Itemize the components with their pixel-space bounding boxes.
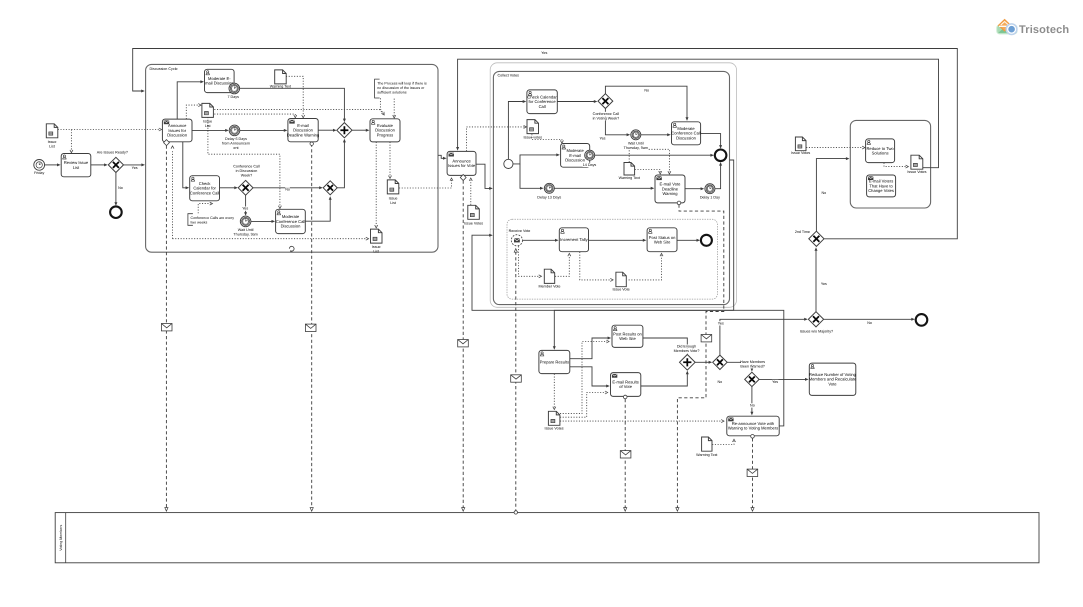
- gateway merge conference call: [323, 181, 337, 195]
- task Moderate E-mail Discussion CV: [561, 144, 590, 168]
- gateway Conference Call in Voting Week?: [598, 94, 613, 109]
- association annotation Conference-Calls stub: [198, 204, 210, 214]
- svg-text:Have Members: Have Members: [740, 360, 765, 364]
- svg-text:Yes: Yes: [132, 166, 138, 170]
- message flow Announce-Vote to pool: [462, 181, 464, 508]
- gateway Issues without Majority?: [808, 312, 823, 327]
- association Receive-Vote start to Member Vote: [519, 246, 540, 276]
- label 7 Days: [227, 95, 239, 99]
- subprocess Collect Votes outer shadow rect: [490, 63, 736, 307]
- data object Member Vote: [544, 269, 554, 283]
- association Warning Text to E-mail Warning: [286, 76, 303, 116]
- svg-text:Been Warned?: Been Warned?: [740, 364, 764, 368]
- svg-text:in Voting Week?: in Voting Week?: [593, 116, 620, 120]
- data object Issue List bottom: [371, 229, 383, 243]
- wire Check Calendar to Conference-Call-Week gateway: [220, 187, 236, 189]
- task Re-announce Vote with Warning: [727, 416, 779, 436]
- wire sequence flow Issue-Votes loop to Announce Issues for Vote: [458, 59, 939, 168]
- wire Wait-Until-Thursday to Moderate Conference Call: [251, 220, 272, 222]
- association Issue Votes doc to Announce Issues for Vote: [470, 180, 472, 205]
- association Announce-Discussion to Issue List copy: [186, 105, 199, 119]
- wire CV Wait-Until-Thursday to Moderate Conference Call: [641, 134, 668, 136]
- association Issue Vote to Post Status: [629, 255, 662, 280]
- wire sequence flow 2nd-Time Yes loop back to Discussion Cycle: [133, 49, 958, 239]
- svg-text:2nd Time: 2nd Time: [795, 230, 810, 234]
- association Issue Votes to Post Results: [560, 342, 607, 414]
- svg-text:Warning Text: Warning Text: [619, 176, 640, 180]
- label 14 Days: [583, 163, 597, 167]
- wire Announce Issues for Vote into Collect Votes: [476, 164, 490, 188]
- svg-text:Receive Vote: Receive Vote: [509, 229, 531, 233]
- message flow E-mail Results to pool: [624, 399, 626, 508]
- svg-text:Issue Votes: Issue Votes: [907, 170, 926, 174]
- association Issue List to Review Issue List: [70, 130, 72, 151]
- wire Collect Votes to Prepare Results: [554, 160, 733, 347]
- task Announce Issues for Vote: [447, 151, 476, 175]
- svg-text:sufficient solutions: sufficient solutions: [377, 90, 407, 94]
- task E-mail Vote Deadline Warning: [655, 175, 685, 203]
- svg-text:No: No: [821, 191, 826, 195]
- pool Voting Members: [55, 513, 1039, 563]
- svg-text:Issues w/o Majority?: Issues w/o Majority?: [800, 329, 833, 333]
- label Friday: [33, 171, 45, 175]
- wire E-mail Warning to parallel gateway: [318, 129, 334, 131]
- svg-text:Warning Text: Warning Text: [696, 453, 717, 457]
- svg-text:in Discussion: in Discussion: [236, 169, 258, 173]
- event subprocess Receive Vote: [507, 219, 717, 299]
- intermediate timer Delay 1 Day: [705, 184, 715, 194]
- association Reduce to Two Solutions to Issue Votes right: [884, 163, 906, 167]
- annotation Conference Calls are every two weeks: [188, 214, 193, 226]
- data object Warning Text in Collect Votes: [624, 163, 635, 176]
- svg-text:No: No: [644, 89, 649, 93]
- svg-text:Member Vote: Member Vote: [539, 285, 561, 289]
- svg-text:Conference Calls are every: Conference Calls are every: [191, 216, 235, 220]
- svg-text:Delay 13 Days: Delay 13 Days: [537, 196, 561, 200]
- association Warning Text CV to E-mail Vote Deadline Warning 2: [635, 170, 660, 173]
- svg-text:Issue: Issue: [48, 140, 57, 144]
- association Issue List copy to E-mail Warning: [214, 114, 295, 116]
- task Evaluate Discussion Progress: [370, 119, 400, 142]
- wire Conference-Call-Week No to merge gateway: [253, 187, 320, 189]
- svg-text:Issue votes: Issue votes: [523, 136, 542, 140]
- association Warning Text CV to E-mail Vote Deadline Warning: [629, 149, 669, 172]
- svg-text:Conference Call: Conference Call: [593, 112, 620, 116]
- wire Friday timer to Review Issue List: [45, 164, 58, 166]
- task Moderate Conference Call Discussion CV: [672, 122, 701, 145]
- wire Conference-Call-Week Yes to Wait-Until-Thursday: [245, 195, 247, 213]
- wire Did-Enough parallel to result gateway: [695, 361, 710, 363]
- data object Issue Votes right of Reduce box: [911, 155, 923, 169]
- svg-text:AnnounceIssues forDiscussion: AnnounceIssues forDiscussion: [167, 123, 188, 137]
- association Issue List copy to Moderate Conference Call: [208, 117, 280, 207]
- svg-text:Prepare Results: Prepare Results: [540, 359, 569, 364]
- task Post Results on Web Site: [612, 325, 643, 347]
- subprocess Reduce to Two Solutions container: [850, 120, 930, 208]
- boundary timer 14 Days: [585, 150, 595, 160]
- svg-text:Conference Call: Conference Call: [233, 164, 260, 168]
- svg-text:List: List: [49, 145, 55, 149]
- wire Post Status to Receive-Vote end: [677, 239, 697, 241]
- association Prepare Results to Issue Votes: [553, 374, 555, 408]
- wire merge gateway to parallel gateway: [337, 142, 344, 188]
- parallel gateway Did Enough Members Vote?: [680, 355, 696, 371]
- association Increment Tally to Issue Vote: [580, 252, 611, 280]
- svg-text:List: List: [390, 201, 396, 205]
- wire Moderate Conference Call to merge gateway: [305, 199, 330, 221]
- subprocess Discussion Cycle: [146, 64, 438, 252]
- wire Increment Tally to Post Status: [589, 239, 644, 241]
- message flow Announce-Discussion to pool: [165, 146, 167, 508]
- association Issue List below to Announce Issues for Vote: [399, 180, 452, 188]
- svg-text:Yes: Yes: [541, 51, 547, 55]
- association Evaluate to Issue List below: [389, 142, 391, 177]
- svg-text:Collect Votes: Collect Votes: [498, 74, 520, 78]
- wire Delay-6-Days to E-mail Discussion Deadline Warning: [240, 129, 285, 131]
- wire CV start to Delay-13-Days: [520, 164, 541, 188]
- data object Issue Votes near Prepare Results: [548, 411, 560, 425]
- svg-text:Thursday, 9am: Thursday, 9am: [624, 146, 648, 150]
- task E-mail Voters That Have to Change Votes: [867, 175, 896, 197]
- timer rings Friday: [34, 160, 45, 171]
- wire Review Issue List to Are-Issues-Ready gateway: [91, 164, 105, 166]
- wire Prepare Results to Post Results: [570, 338, 609, 359]
- task Check Calendar for Conference Call: [190, 176, 220, 201]
- wire CV Check Calendar to Voting-Week gateway: [557, 101, 594, 103]
- svg-text:Issue Vote: Issue Vote: [612, 288, 629, 292]
- message flow E-mail Vote Deadline Warning to pool: [677, 205, 723, 508]
- wire Delay-1-Day to CV end: [715, 165, 721, 189]
- wire Are-Issues-Ready Yes into Discussion Cycle: [124, 164, 143, 166]
- wire E-mail Results to Did-Enough gateway: [641, 373, 688, 386]
- wire 7-Days timer to parallel gateway: [240, 88, 345, 119]
- task Moderate E-mail Discussion: [205, 69, 235, 92]
- svg-text:Discussion Cycle: Discussion Cycle: [150, 67, 178, 71]
- cv start: [504, 159, 513, 168]
- svg-text:Trisotech: Trisotech: [1019, 24, 1069, 36]
- association Issue List to Announce Issues for Discussion: [58, 129, 160, 131]
- data object Issue votes in Collect Votes: [527, 120, 539, 134]
- svg-text:Did Enough: Did Enough: [677, 345, 696, 349]
- task Post Status on Web Site: [647, 228, 677, 252]
- svg-text:Yes: Yes: [772, 380, 778, 384]
- wire Discussion Cycle to Announce Issues for Vote: [438, 155, 444, 158]
- svg-text:Are Issues Ready?: Are Issues Ready?: [97, 150, 128, 154]
- task Moderate Conference Call Discussion: [276, 209, 306, 233]
- svg-text:No: No: [717, 380, 722, 384]
- wire 14-Days timer to CV end: [595, 154, 711, 156]
- task Prepare Results: [539, 350, 570, 373]
- task E-mail Results of Vote: [611, 373, 641, 397]
- svg-text:ent: ent: [233, 146, 238, 150]
- wire Delay-13-Days to E-mail Vote Deadline Warning: [555, 187, 652, 189]
- svg-text:No: No: [285, 188, 290, 192]
- svg-text:Week?: Week?: [241, 173, 252, 177]
- task Check Calendar for Conference Call CV: [527, 90, 557, 114]
- subprocess Collect Votes: [493, 71, 729, 304]
- association Announce Issues for Vote to Issue votes CV: [467, 127, 525, 151]
- message source circle E-mail Results of Vote: [623, 395, 627, 399]
- svg-text:No: No: [867, 321, 872, 325]
- svg-text:Yes: Yes: [242, 207, 248, 211]
- rv end: [701, 235, 712, 246]
- parallel gateway discussion join: [337, 123, 352, 138]
- association Issue votes CV to Moderate E-mail Discussion: [532, 134, 562, 141]
- gateway vote result: [713, 355, 727, 369]
- wire Receive-Vote start to Increment Tally: [523, 239, 556, 241]
- wire Announce-Discussion to Delay-6-Days: [192, 129, 226, 131]
- gateway Conference Call in Discussion Week?: [238, 180, 253, 195]
- svg-text:Wait Until: Wait Until: [238, 228, 254, 232]
- gateway Have Members Been Warned?: [745, 372, 759, 386]
- svg-text:Yes: Yes: [821, 282, 827, 286]
- cv end: [715, 150, 727, 162]
- data object Issue Votes left of Reduce box: [795, 137, 806, 151]
- association loop back to Announce Issues for Discussion: [172, 150, 174, 239]
- message source circle Re-announce Vote: [751, 435, 755, 439]
- data object Warning Text in Discussion Cycle: [275, 70, 287, 84]
- svg-text:Issue Votes: Issue Votes: [791, 151, 810, 155]
- svg-text:Issue Votes: Issue Votes: [545, 427, 564, 431]
- message flow E-mail Discussion Warning to pool: [311, 144, 313, 508]
- svg-text:Issue: Issue: [372, 245, 381, 249]
- label Delay 6 Days: [224, 137, 247, 141]
- association Evaluate to Issue List bottom: [375, 142, 377, 226]
- wire Voting-Week Yes to Wait-Until-Thursday: [605, 109, 627, 135]
- svg-text:Issue: Issue: [203, 119, 212, 123]
- association Warning Text to Re-announce Vote: [712, 441, 734, 444]
- wire Announce-Discussion to Moderate E-mail Discussion: [177, 82, 201, 119]
- data object Warning Text near Re-announce: [702, 437, 712, 451]
- data object Issue Vote: [616, 272, 626, 287]
- task Announce Issues for Discussion: [162, 119, 192, 142]
- wire Post Results to Did-Enough gateway: [643, 338, 687, 351]
- association Issue Votes to Re-announce Vote: [560, 420, 722, 422]
- svg-text:Wait Until: Wait Until: [628, 141, 644, 145]
- wire CV start to Moderate E-mail Discussion: [513, 155, 557, 164]
- svg-text:Issue Votes: Issue Votes: [464, 221, 483, 225]
- association Issue Votes to E-mail Results: [560, 393, 606, 418]
- wire CV Moderate Conference Call to end: [701, 134, 721, 146]
- conditional diamond under Announce Issues for Discussion: [164, 140, 170, 146]
- main end: [916, 314, 928, 326]
- svg-text:Yes: Yes: [599, 137, 605, 141]
- message flow Re-announce Vote to pool: [752, 438, 754, 508]
- svg-text:Yes: Yes: [718, 321, 724, 325]
- Trisotech logo: [997, 20, 1070, 36]
- svg-text:Issue: Issue: [389, 197, 398, 201]
- svg-text:Delay 1 Day: Delay 1 Day: [700, 196, 720, 200]
- wire result gateway No to Have-Members-Been-Warned: [727, 362, 752, 369]
- task Increment Tally: [559, 228, 588, 252]
- message flow pool to Receive Vote start: [515, 252, 517, 513]
- wire Re-announce Vote back into Collect Votes: [472, 235, 784, 426]
- wire result gateway Yes to Issues-w/o-Majority: [720, 319, 805, 355]
- label Yes on top loop: [541, 51, 548, 55]
- svg-text:Re-announce Vote withWarning t: Re-announce Vote withWarning to Voting M…: [728, 421, 778, 431]
- boundary timer 7 Days: [229, 83, 240, 94]
- wire Issues-w/o-Majority Yes to 2nd-Time gateway: [815, 250, 817, 312]
- association annotation to Evaluate: [380, 98, 383, 113]
- gateway 2nd Time: [809, 231, 824, 246]
- svg-text:no discussion of the issues or: no discussion of the issues or: [377, 86, 425, 90]
- task Review Issue List: [61, 154, 91, 177]
- wire Have-Members No to Re-announce Vote: [751, 387, 753, 413]
- task Reduce to Two Solutions: [866, 139, 895, 163]
- intermediate timer Wait Until Thursday 9am: [240, 216, 251, 227]
- label Wait Until Thursday: [236, 228, 256, 232]
- wire Issues-w/o-Majority No to end: [824, 318, 913, 320]
- svg-text:Delay 6 Days: Delay 6 Days: [225, 137, 247, 141]
- task E-mail Discussion Deadline Warning: [288, 119, 318, 142]
- svg-text:List: List: [373, 249, 379, 253]
- association Member Vote to Increment Tally: [555, 255, 569, 276]
- wire Announce-Discussion to Check Calendar: [183, 142, 187, 188]
- intermediate timer Delay 13 Days: [544, 183, 554, 193]
- annotation The Process will loop: [375, 79, 380, 98]
- wire CV start to Check Calendar for Conference Call: [508, 102, 523, 160]
- data object Issue List start: [46, 124, 58, 138]
- svg-text:E-mail VotersThat Have toChang: E-mail VotersThat Have toChange Votes: [868, 179, 894, 193]
- svg-text:Friday: Friday: [34, 171, 44, 175]
- Receive Vote message start event (non-interrupting): [511, 235, 522, 246]
- data object Issue Votes below Announce for Vote: [468, 205, 480, 219]
- association Issue List copy to Evaluate: [214, 110, 383, 114]
- svg-text:No: No: [118, 186, 123, 190]
- svg-text:7 Days: 7 Days: [227, 95, 239, 99]
- svg-text:Thursday, 9am: Thursday, 9am: [233, 232, 257, 236]
- end event no-issues: [110, 206, 122, 218]
- intermediate timer Wait Until Thursday CV: [631, 130, 641, 140]
- svg-text:two weeks: two weeks: [191, 220, 208, 224]
- svg-text:Moderate E-mail Discussion: Moderate E-mail Discussion: [205, 76, 234, 86]
- svg-text:List: List: [205, 124, 211, 128]
- svg-text:Warning Text: Warning Text: [270, 84, 291, 88]
- gateway Are Issues Ready?: [108, 157, 123, 172]
- wire Have-Members Yes to Reduce Number task: [759, 378, 806, 380]
- loop marker of Discussion Cycle: [289, 246, 294, 251]
- association Issue Votes to Reduce to Two Solutions: [806, 147, 863, 149]
- svg-text:EvaluateDiscussionProgress: EvaluateDiscussionProgress: [375, 123, 396, 137]
- wire parallel gateway to Evaluate Discussion Progress: [352, 129, 367, 131]
- data object Issue List below Evaluate: [387, 180, 399, 194]
- svg-text:Increment Tally: Increment Tally: [560, 237, 588, 242]
- association loop line to Issue List bottom: [173, 238, 367, 240]
- svg-text:from Announcem: from Announcem: [222, 142, 250, 146]
- wire 2nd-Time No into Reduce subprocess: [816, 159, 846, 232]
- wire Voting-Week No to Moderate Conference Call: [605, 86, 687, 118]
- svg-text:Members Vote?: Members Vote?: [674, 349, 700, 353]
- svg-text:14 Days: 14 Days: [583, 163, 597, 167]
- task Reduce Number of Voting Members: [809, 363, 856, 395]
- association annotation to Evaluate 2: [393, 99, 395, 116]
- message source circle E-mail Vote Deadline Warning: [677, 201, 681, 205]
- wire Are-Issues-Ready No to end: [115, 173, 117, 204]
- svg-text:Voting Members: Voting Members: [59, 525, 63, 551]
- svg-text:The Process will loop if there: The Process will loop if there is: [377, 81, 427, 85]
- conditional diamond under Announce Issues for Vote: [460, 175, 466, 181]
- wire E-mail Vote Deadline Warning to Delay-1-Day: [685, 188, 701, 190]
- wire Prepare Results to E-mail Results: [570, 367, 607, 386]
- intermediate timer Delay 6 Days: [229, 125, 240, 136]
- svg-text:No: No: [750, 403, 755, 407]
- data object Issue List in Discussion Cycle: [202, 103, 214, 117]
